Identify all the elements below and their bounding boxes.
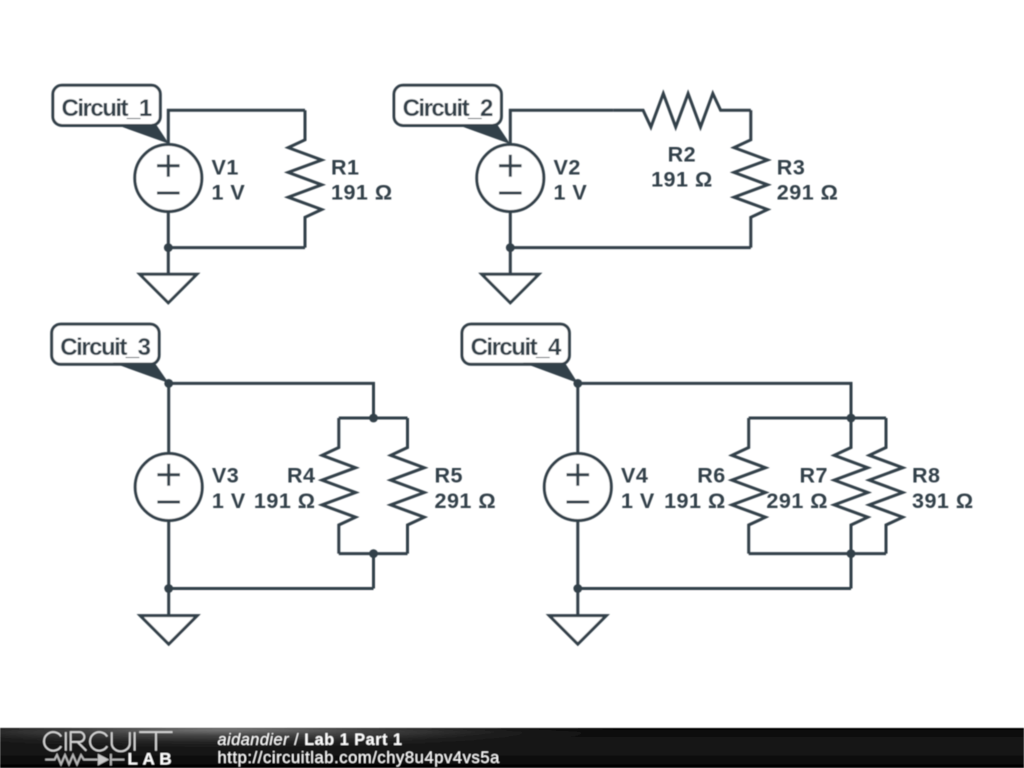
wire: circuit 1 bottom rail [168,212,305,248]
wire: parallel pair top rail [339,417,408,420]
node: circuit 3 ground junction [164,584,173,593]
svg-text:LAB: LAB [128,749,177,768]
wire: parallel pair bottom rail [339,554,408,589]
wire: circuit 2 bottom rail [510,212,751,248]
resistor R7 [834,418,868,554]
wire: circuit 4 top rail [578,383,851,453]
svg-text:291 Ω: 291 Ω [766,489,828,513]
svg-text:191 Ω: 191 Ω [254,489,316,513]
svg-text:191 Ω: 191 Ω [651,168,713,192]
svg-text:391 Ω: 391 Ω [912,489,974,513]
callout Circuit_2 [394,85,501,125]
svg-text:1 V: 1 V [212,489,246,513]
ground circuit 4 [549,616,606,645]
svg-text:V3: V3 [212,464,239,488]
svg-text:191 Ω: 191 Ω [664,489,726,513]
svg-text:291 Ω: 291 Ω [435,489,497,513]
svg-text:R5: R5 [435,464,463,488]
wire: V4 to ground [576,589,579,616]
wire: parallel trio top rail [749,417,886,420]
logo CIRCUIT [44,732,173,751]
wire: V2 to ground [509,248,512,275]
voltage source V3 [135,454,202,521]
svg-text:1 V: 1 V [212,181,246,205]
svg-text:Circuit_4: Circuit_4 [471,334,562,361]
node: circuit 4 top [573,379,582,388]
ground circuit 2 [482,274,539,303]
svg-text:V1: V1 [212,155,239,179]
svg-text:1 V: 1 V [554,181,588,205]
svg-text:Circuit_2: Circuit_2 [403,95,493,122]
ground circuit 3 [140,616,197,645]
node: pair top junction [369,414,378,423]
wire: circuit 4 bottom rail [578,521,851,589]
svg-text:191 Ω: 191 Ω [331,181,393,205]
svg-text:291 Ω: 291 Ω [777,181,839,205]
resistor R4 [322,418,356,554]
svg-text:Circuit_3: Circuit_3 [60,334,150,361]
resistor R3 [734,110,768,247]
svg-text:1 V: 1 V [621,489,655,513]
svg-text:R8: R8 [912,464,940,488]
resistor R1 [288,110,322,247]
svg-text:R3: R3 [777,155,805,179]
resistor R2 [613,94,750,128]
node: pair bottom junction [369,549,378,558]
wire: circuit 3 top rail [169,383,374,453]
ground circuit 1 [140,274,197,303]
node: trio bottom junction [847,549,856,558]
svg-text:http://circuitlab.com/chy8u4pv: http://circuitlab.com/chy8u4pv4vs5a [218,749,501,767]
node: trio top junction [847,414,856,423]
svg-text:R1: R1 [331,155,359,179]
svg-text:aidandier / Lab 1 Part 1: aidandier / Lab 1 Part 1 [218,731,403,749]
wire: V3 to ground [167,589,170,616]
voltage source V1 [135,145,202,212]
resistor R6 [732,418,766,554]
node: circuit 4 ground junction [573,584,582,593]
resistor R8 [869,418,903,554]
callout Circuit_3 [52,324,159,364]
resistor R5 [391,418,425,554]
wire: circuit 3 bottom rail [169,521,374,589]
wire: V1 to ground [167,248,170,275]
node: circuit 3 top [164,379,173,388]
logo resistor-diode line [45,754,124,766]
svg-text:R6: R6 [697,464,725,488]
svg-text:R2: R2 [668,142,696,166]
node: circuit 1 ground junction [164,243,173,252]
node: circuit 2 ground junction [506,243,515,252]
wire: circuit 2 top rail [510,110,613,144]
voltage source V4 [544,454,611,521]
svg-text:R7: R7 [800,464,828,488]
wire: parallel trio bottom rail [749,554,886,589]
callout Circuit_4 [462,324,569,364]
wire: circuit 1 top rail [168,110,305,144]
svg-text:Circuit_1: Circuit_1 [62,95,152,122]
svg-text:V4: V4 [621,464,648,488]
svg-text:R4: R4 [287,464,315,488]
svg-text:V2: V2 [554,155,581,179]
voltage source V2 [477,145,544,212]
callout Circuit_1 [53,85,160,125]
